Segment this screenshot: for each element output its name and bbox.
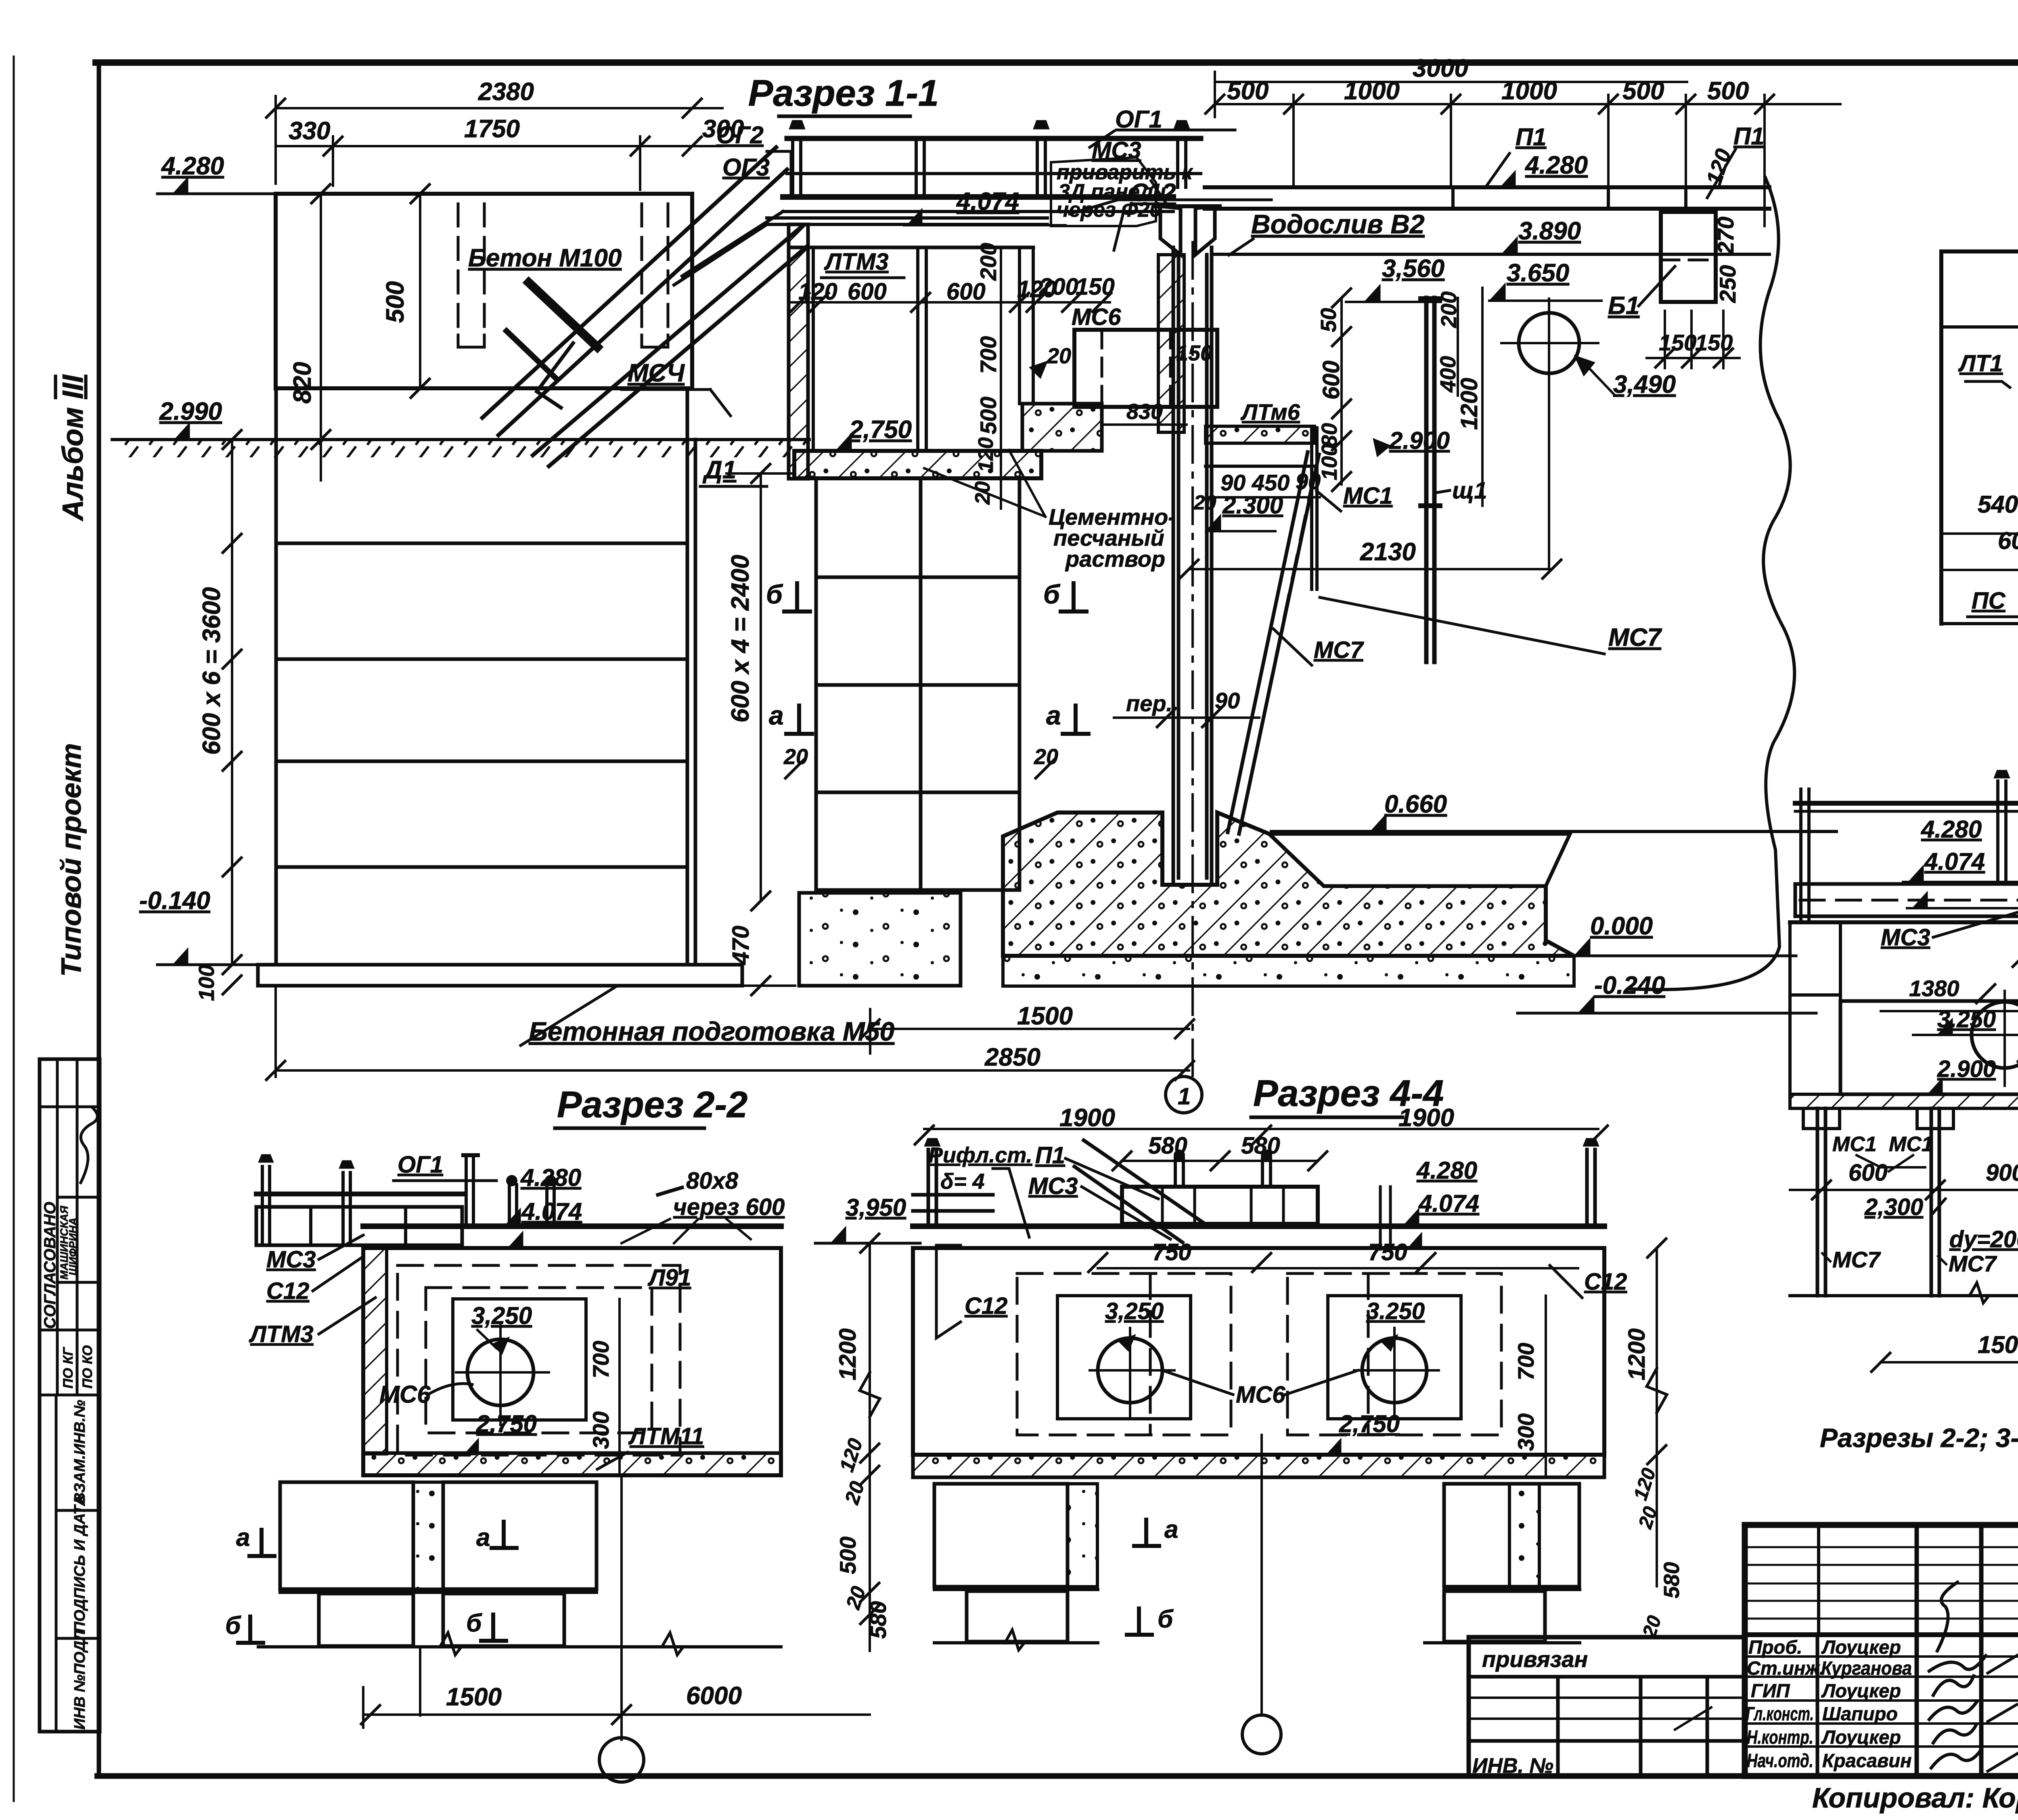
svg-text:ИНВ №ПОДЛ: ИНВ №ПОДЛ bbox=[71, 1630, 88, 1730]
end railing posts bbox=[928, 1150, 1595, 1225]
svg-text:600: 600 bbox=[848, 279, 887, 305]
svg-text:1: 1 bbox=[1178, 1083, 1191, 1110]
svg-text:500: 500 bbox=[1227, 77, 1269, 105]
svg-text:5400: 5400 bbox=[1978, 491, 2018, 518]
svg-text:6000: 6000 bbox=[686, 1682, 742, 1710]
svg-text:2.900: 2.900 bbox=[1389, 427, 1450, 454]
inner solid box bbox=[453, 1299, 586, 1420]
svg-text:300: 300 bbox=[1513, 1414, 1539, 1451]
svg-text:ШИФРИНА: ШИФРИНА bbox=[67, 1218, 79, 1275]
svg-text:2130: 2130 bbox=[1360, 538, 1416, 566]
svg-text:200: 200 bbox=[976, 243, 1001, 281]
svg-text:МС3: МС3 bbox=[1028, 1173, 1078, 1199]
svg-text:б: б bbox=[225, 1612, 241, 1640]
tank top line bbox=[1790, 920, 2018, 924]
svg-text:Лоуцкер: Лоуцкер bbox=[1821, 1726, 1901, 1748]
svg-text:ГИП: ГИП bbox=[1751, 1680, 1790, 1701]
svg-text:ПО КО: ПО КО bbox=[80, 1345, 95, 1389]
svg-text:МС1: МС1 bbox=[1343, 483, 1392, 509]
svg-text:ОГ2: ОГ2 bbox=[716, 121, 764, 149]
right wall of upper tank bbox=[1018, 247, 1021, 404]
top railing bbox=[1795, 801, 2018, 806]
svg-text:Красавин: Красавин bbox=[1822, 1750, 1912, 1771]
cement mortar note bbox=[1049, 504, 1176, 572]
svg-text:1000: 1000 bbox=[1344, 77, 1400, 105]
svg-text:50: 50 bbox=[1317, 308, 1341, 332]
svg-text:100: 100 bbox=[1317, 444, 1342, 480]
tank body bbox=[363, 1248, 781, 1475]
svg-text:ЛТМ11: ЛТМ11 bbox=[628, 1423, 704, 1449]
bottom line + dims bbox=[1941, 622, 2018, 625]
svg-text:3.250: 3.250 bbox=[1366, 1298, 1425, 1324]
svg-text:1200: 1200 bbox=[835, 1328, 861, 1380]
B1 end wall bbox=[1661, 212, 1716, 302]
svg-text:Лоуцкер: Лоуцкер bbox=[1821, 1680, 1901, 1701]
MC7 diagonal bbox=[1228, 452, 1319, 834]
svg-text:0.660: 0.660 bbox=[1384, 790, 1447, 818]
svg-text:δ= 4: δ= 4 bbox=[940, 1169, 985, 1194]
svg-text:ИНВ. №: ИНВ. № bbox=[1472, 1754, 1553, 1778]
section marks b / a near wall bbox=[766, 579, 1061, 730]
svg-text:2,750: 2,750 bbox=[849, 416, 912, 444]
svg-text:4.074: 4.074 bbox=[1924, 848, 1985, 875]
svg-text:500: 500 bbox=[976, 397, 1001, 434]
right dim chain bbox=[869, 1243, 871, 1651]
svg-text:150: 150 bbox=[1695, 330, 1733, 355]
svg-text:3,950: 3,950 bbox=[846, 1194, 906, 1221]
svg-text:Типовой проект: Типовой проект bbox=[55, 743, 87, 977]
svg-text:-0.140: -0.140 bbox=[139, 887, 210, 915]
svg-text:С12: С12 bbox=[1584, 1269, 1627, 1295]
svg-text:4.074: 4.074 bbox=[1418, 1190, 1479, 1217]
svg-text:ВЗАМ.ИНВ.№: ВЗАМ.ИНВ.№ bbox=[71, 1400, 88, 1504]
svg-text:1750: 1750 bbox=[464, 115, 520, 143]
svg-text:пер.: пер. bbox=[1126, 691, 1172, 716]
svg-text:120: 120 bbox=[798, 279, 837, 305]
svg-text:МСЧ: МСЧ bbox=[628, 359, 685, 387]
svg-text:3,560: 3,560 bbox=[1382, 255, 1444, 283]
wall panels below ground (600x6) bbox=[276, 388, 695, 965]
привязан box bbox=[1469, 1637, 1745, 1776]
svg-text:3,250: 3,250 bbox=[471, 1302, 532, 1329]
dim rows bbox=[1978, 491, 2018, 558]
left landing platform bbox=[256, 1192, 464, 1196]
hatched column under trough bbox=[1158, 255, 1184, 432]
svg-text:МС7: МС7 bbox=[1832, 1247, 1881, 1272]
svg-text:2.990: 2.990 bbox=[159, 398, 222, 425]
tank body bbox=[913, 1248, 1604, 1455]
svg-text:МС6: МС6 bbox=[379, 1381, 431, 1408]
svg-text:П1: П1 bbox=[1733, 123, 1765, 150]
MC7 labels bbox=[1832, 1247, 2018, 1276]
svg-text:Водослив В2: Водослив В2 bbox=[1251, 209, 1425, 239]
foundation blocks below bbox=[280, 1482, 597, 1646]
svg-text:4.280: 4.280 bbox=[1416, 1157, 1477, 1184]
svg-text:2380: 2380 bbox=[478, 78, 534, 106]
svg-text:ЛТ1: ЛТ1 bbox=[1958, 350, 2003, 377]
svg-text:2.900: 2.900 bbox=[1937, 1056, 1996, 1082]
svg-text:820: 820 bbox=[289, 362, 316, 404]
svg-text:3,490: 3,490 bbox=[1613, 371, 1676, 398]
concrete slab Beton M100 bbox=[276, 194, 692, 388]
a/b marks bbox=[1158, 1516, 1178, 1633]
signature squiggle bbox=[81, 1108, 97, 1183]
svg-text:щ1: щ1 bbox=[1452, 478, 1487, 504]
svg-text:600: 600 bbox=[1848, 1160, 1888, 1186]
svg-text:МС7: МС7 bbox=[1608, 624, 1662, 651]
svg-text:через Ф20: через Ф20 bbox=[1057, 198, 1161, 222]
svg-text:Д1: Д1 bbox=[702, 456, 736, 484]
svg-text:ЛТМ3: ЛТМ3 bbox=[249, 1321, 314, 1347]
svg-text:ПО КГ: ПО КГ bbox=[61, 1347, 76, 1389]
freehand break line bbox=[1630, 178, 1794, 990]
tank bottom slab hatched bbox=[794, 451, 1041, 478]
top railing bbox=[787, 136, 1201, 141]
svg-text:ОГ1: ОГ1 bbox=[398, 1152, 443, 1178]
svg-text:20: 20 bbox=[1047, 344, 1071, 368]
svg-text:Проб.: Проб. bbox=[1748, 1636, 1802, 1658]
main column on axis 1 bbox=[1173, 247, 1212, 885]
svg-text:Б1: Б1 bbox=[1608, 292, 1639, 320]
svg-text:4.074: 4.074 bbox=[521, 1198, 582, 1225]
svg-text:20: 20 bbox=[1193, 491, 1216, 514]
svg-text:ОГ3: ОГ3 bbox=[722, 154, 770, 181]
bottom lean concrete strip bbox=[258, 965, 742, 986]
svg-text:б: б bbox=[466, 1609, 482, 1637]
svg-text:4.074: 4.074 bbox=[956, 188, 1019, 216]
svg-text:750: 750 bbox=[1152, 1239, 1191, 1265]
svg-text:а: а bbox=[1046, 700, 1061, 730]
svg-text:через 600: через 600 bbox=[673, 1194, 785, 1220]
svg-text:2,750: 2,750 bbox=[1339, 1410, 1400, 1437]
svg-text:330: 330 bbox=[289, 117, 330, 145]
section marks a/b left & middle bbox=[225, 1524, 490, 1640]
svg-text:СОГЛАСОВАНО: СОГЛАСОВАНО bbox=[41, 1202, 59, 1329]
svg-text:3000: 3000 bbox=[1413, 54, 1468, 82]
left tank wall hatched bbox=[789, 224, 808, 479]
svg-text:ПС: ПС bbox=[1972, 588, 2006, 614]
svg-text:Л91: Л91 bbox=[647, 1265, 691, 1291]
svg-text:4.280: 4.280 bbox=[520, 1164, 581, 1191]
svg-text:МС6: МС6 bbox=[1072, 304, 1121, 330]
svg-text:1500: 1500 bbox=[1978, 1331, 2018, 1358]
left attestation column bbox=[40, 1059, 100, 1732]
walkway slab bbox=[783, 194, 1173, 200]
svg-text:80х8: 80х8 bbox=[686, 1168, 739, 1194]
dim row 600 900 300 300 900 600 bbox=[1848, 1160, 2018, 1186]
svg-text:МС3: МС3 bbox=[266, 1246, 316, 1273]
svg-text:МС6: МС6 bbox=[1236, 1382, 1285, 1408]
svg-text:Рифл.ст.: Рифл.ст. bbox=[928, 1143, 1032, 1167]
svg-text:а: а bbox=[476, 1524, 490, 1552]
svg-text:3.890: 3.890 bbox=[1518, 217, 1581, 245]
svg-text:4.280: 4.280 bbox=[161, 152, 224, 180]
slab P1 right part bbox=[1205, 185, 1769, 189]
bottom slab hatched bbox=[363, 1453, 781, 1475]
svg-text:3,250: 3,250 bbox=[1105, 1298, 1164, 1324]
deck lines bbox=[913, 1223, 1604, 1229]
title block bbox=[1745, 1525, 2018, 1776]
svg-text:П1: П1 bbox=[1035, 1142, 1065, 1169]
svg-text:МС7: МС7 bbox=[1314, 637, 1364, 663]
svg-text:Бетон М100: Бетон М100 bbox=[468, 244, 622, 272]
bottom slab hatched bands bbox=[1790, 1094, 2018, 1108]
svg-text:б: б bbox=[766, 579, 783, 609]
svg-text:П1: П1 bbox=[1516, 124, 1547, 151]
svg-text:б: б bbox=[1158, 1605, 1174, 1633]
foundation blocks bbox=[934, 1484, 1579, 1642]
svg-text:2.750: 2.750 bbox=[476, 1410, 537, 1437]
svg-text:ОГ1: ОГ1 bbox=[1115, 106, 1162, 133]
svg-text:600 х 4 = 2400: 600 х 4 = 2400 bbox=[726, 555, 754, 723]
svg-text:Гл.конст.: Гл.конст. bbox=[1746, 1703, 1814, 1724]
svg-text:б: б bbox=[1043, 579, 1061, 609]
svg-text:300: 300 bbox=[588, 1412, 613, 1449]
svg-text:0.000: 0.000 bbox=[1590, 912, 1653, 940]
svg-text:20: 20 bbox=[783, 745, 808, 769]
svg-text:ПОДПИСЬ И ДАТА: ПОДПИСЬ И ДАТА bbox=[71, 1495, 88, 1633]
svg-text:6000: 6000 bbox=[1998, 527, 2018, 554]
svg-text:250: 250 bbox=[1715, 265, 1740, 303]
svg-text:470: 470 bbox=[728, 926, 754, 965]
shield bar Щ1 bbox=[1424, 298, 1429, 662]
signatures bbox=[1929, 1582, 1986, 1768]
bottom line + dims bbox=[1790, 1294, 2018, 1297]
tank outline bbox=[1941, 249, 2018, 253]
lean concrete under foundation bbox=[1003, 956, 1574, 986]
svg-text:580: 580 bbox=[1241, 1133, 1280, 1159]
dashed liner boxes bbox=[398, 1265, 680, 1455]
anchor dashes in slab bbox=[458, 204, 484, 335]
svg-text:Копировал: Корецкая: Копировал: Корецкая bbox=[1812, 1782, 2018, 1814]
svg-text:С12: С12 bbox=[266, 1278, 309, 1304]
svg-text:20: 20 bbox=[971, 481, 994, 505]
svg-text:4.280: 4.280 bbox=[1921, 816, 1982, 843]
svg-text:2850: 2850 bbox=[984, 1043, 1040, 1071]
central partition of upper tank bbox=[916, 247, 919, 451]
svg-text:Разрез 1-1: Разрез 1-1 bbox=[748, 73, 939, 114]
bottom slab hatched bbox=[913, 1455, 1604, 1477]
MC6 boxes + circles bbox=[1840, 1001, 2018, 1094]
svg-text:500: 500 bbox=[1622, 77, 1664, 105]
svg-text:580: 580 bbox=[1660, 1562, 1684, 1598]
svg-text:ЛТм6: ЛТм6 bbox=[1240, 399, 1300, 425]
svg-text:700: 700 bbox=[976, 336, 1001, 374]
svg-text:МС1: МС1 bbox=[1889, 1133, 1933, 1156]
svg-text:привязан: привязан bbox=[1482, 1646, 1588, 1672]
svg-text:750: 750 bbox=[1368, 1239, 1407, 1265]
svg-text:а: а bbox=[1164, 1516, 1178, 1544]
dashed boxes + circles x2 bbox=[1017, 1273, 1231, 1435]
svg-text:270: 270 bbox=[1713, 217, 1738, 255]
svg-text:700: 700 bbox=[588, 1341, 613, 1378]
svg-text:100: 100 bbox=[195, 965, 219, 1001]
svg-text:Шапиро: Шапиро bbox=[1822, 1703, 1898, 1724]
svg-text:700: 700 bbox=[1513, 1343, 1539, 1380]
svg-text:Нач.отд.: Нач.отд. bbox=[1747, 1750, 1813, 1771]
svg-text:900: 900 bbox=[1986, 1160, 2018, 1186]
svg-text:1900: 1900 bbox=[1059, 1104, 1115, 1132]
svg-text:МС1: МС1 bbox=[1832, 1133, 1877, 1156]
left footing of tank (stippled) bbox=[799, 893, 961, 986]
svg-text:1500: 1500 bbox=[446, 1683, 502, 1711]
svg-text:1200: 1200 bbox=[1456, 378, 1482, 430]
svg-text:dу=200: dу=200 bbox=[1949, 1226, 2018, 1252]
svg-text:Бетонная подготовка М50: Бетонная подготовка М50 bbox=[529, 1016, 895, 1046]
svg-text:500: 500 bbox=[835, 1537, 860, 1574]
P1 box on deck bbox=[1122, 1187, 1318, 1224]
interior dim row 120 600 600 120 200 150 bbox=[798, 274, 1115, 305]
svg-text:Разрезы 2-2; 3-3 замаркирован: Разрезы 2-2; 3-3 замаркированы на листе … bbox=[1820, 1423, 2018, 1453]
svg-text:С12: С12 bbox=[965, 1293, 1007, 1319]
svg-text:Н.контр.: Н.контр. bbox=[1747, 1726, 1813, 1748]
MC6 box bbox=[1074, 330, 1217, 407]
svg-text:2.300: 2.300 bbox=[1222, 492, 1283, 519]
svg-text:2,300: 2,300 bbox=[1864, 1194, 1923, 1220]
staircase diagonals bbox=[482, 147, 807, 466]
svg-text:1380: 1380 bbox=[1909, 976, 1959, 1001]
svg-text:1200: 1200 bbox=[1624, 1328, 1650, 1380]
svg-text:Ст.инж.: Ст.инж. bbox=[1747, 1657, 1825, 1679]
svg-text:600 х 6 = 3600: 600 х 6 = 3600 bbox=[198, 587, 226, 755]
svg-text:500: 500 bbox=[381, 281, 409, 323]
main deck over tank bbox=[363, 1223, 781, 1229]
big pipe circle bbox=[1519, 313, 1579, 373]
svg-text:МС7: МС7 bbox=[1949, 1251, 1997, 1276]
svg-text:-0.240: -0.240 bbox=[1594, 972, 1665, 999]
svg-text:ЛТМ3: ЛТМ3 bbox=[824, 249, 889, 275]
svg-text:4.280: 4.280 bbox=[1524, 151, 1588, 179]
svg-text:Курганова: Курганова bbox=[1821, 1657, 1912, 1679]
svg-text:200: 200 bbox=[1039, 274, 1078, 300]
svg-text:1500: 1500 bbox=[1017, 1002, 1073, 1030]
weir trough bbox=[1160, 206, 1181, 255]
walkway slabs bbox=[1795, 884, 2018, 916]
svg-text:МС3: МС3 bbox=[1881, 924, 1930, 951]
svg-text:а: а bbox=[236, 1524, 250, 1552]
svg-text:1900: 1900 bbox=[1398, 1104, 1454, 1132]
foundation mass bbox=[1003, 813, 1574, 956]
center axis + circle bbox=[1260, 1435, 1263, 1715]
block stack under tank bbox=[816, 478, 1019, 890]
svg-text:Альбом III: Альбом III bbox=[57, 374, 89, 521]
svg-text:Лоуцкер: Лоуцкер bbox=[1821, 1636, 1901, 1658]
svg-text:Разрез 2-2: Разрез 2-2 bbox=[557, 1084, 747, 1125]
svg-text:3.650: 3.650 bbox=[1507, 259, 1569, 287]
svg-text:1000: 1000 bbox=[1501, 77, 1557, 105]
svg-text:500: 500 bbox=[1707, 77, 1749, 105]
svg-text:а: а bbox=[769, 700, 784, 730]
svg-text:600: 600 bbox=[946, 279, 986, 305]
panels below (MC7) bbox=[1817, 1108, 2018, 1296]
svg-text:раствор: раствор bbox=[1065, 546, 1165, 572]
svg-text:20: 20 bbox=[1034, 745, 1058, 769]
